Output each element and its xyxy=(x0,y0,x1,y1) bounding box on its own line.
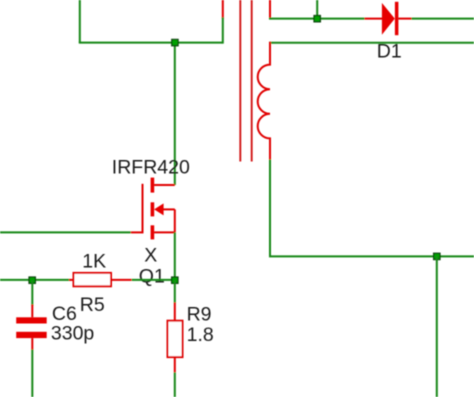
svg-text:1.8: 1.8 xyxy=(187,324,214,346)
resistor R9 top lead xyxy=(174,303,176,321)
wire row C left xyxy=(0,279,70,281)
wire xyxy=(174,372,176,397)
wire xyxy=(222,17,224,43)
wire xyxy=(316,0,318,19)
wire xyxy=(174,43,176,185)
transformer T1 right winding coil xyxy=(258,42,270,160)
capacitor C6 bottom plate xyxy=(16,332,47,338)
diode D1 triangle xyxy=(382,3,395,35)
wire xyxy=(79,42,223,44)
node J2 xyxy=(314,16,320,22)
svg-text:Q1: Q1 xyxy=(139,266,165,288)
transistor Q1 channel bar bottom xyxy=(151,225,155,239)
capacitor C6 top lead xyxy=(31,305,33,318)
diode D1 cathode bar xyxy=(395,2,399,35)
diode D1 cathode lead xyxy=(398,18,411,20)
wire xyxy=(31,350,33,397)
wire row A xyxy=(269,18,365,20)
wire xyxy=(436,256,438,397)
resistor R5 right lead xyxy=(111,279,132,281)
svg-text:R5: R5 xyxy=(80,294,105,316)
wire xyxy=(174,280,176,303)
wire row D xyxy=(269,255,474,257)
wire xyxy=(174,232,176,280)
wire row B right xyxy=(269,42,474,44)
transistor Q1 channel bar top xyxy=(151,178,155,193)
wire row E gate xyxy=(0,231,131,233)
node J5 xyxy=(29,277,35,283)
svg-text:R9: R9 xyxy=(187,303,212,325)
resistor R5 body xyxy=(74,273,112,286)
capacitor C6 bottom lead xyxy=(31,338,33,350)
transistor Q1 source riser xyxy=(174,209,176,232)
svg-text:1K: 1K xyxy=(82,250,106,272)
wire xyxy=(79,0,81,43)
transformer T1 left winding lead xyxy=(222,0,224,18)
transistor Q1 body arrow line xyxy=(163,208,175,210)
wire xyxy=(31,280,33,305)
transistor Q1 body arrow xyxy=(154,203,164,215)
resistor R5 left lead xyxy=(69,279,74,281)
node J3 xyxy=(434,253,440,259)
transformer T1 right winding top lead xyxy=(269,0,271,19)
transformer T1 core line 2 xyxy=(251,0,253,162)
svg-text:330p: 330p xyxy=(51,322,95,344)
svg-text:D1: D1 xyxy=(377,41,402,63)
transistor Q1 source lead xyxy=(154,231,175,233)
wire xyxy=(132,279,175,281)
wire xyxy=(412,18,474,20)
resistor R9 body xyxy=(168,321,183,357)
wire xyxy=(269,160,271,257)
svg-text:IRFR420: IRFR420 xyxy=(112,157,190,179)
resistor R9 bottom lead xyxy=(174,357,176,372)
transformer T1 core line 1 xyxy=(239,0,241,162)
transistor Q1 gate line xyxy=(142,184,144,234)
node J1 xyxy=(172,39,178,45)
diode D1 anode lead xyxy=(365,18,383,20)
capacitor C6 top plate xyxy=(16,317,47,323)
node J4 xyxy=(172,277,178,283)
transistor Q1 gate lead xyxy=(131,231,143,233)
transistor Q1 drain lead xyxy=(154,184,175,186)
transistor Q1 channel bar middle xyxy=(151,202,155,216)
svg-text:X: X xyxy=(144,245,157,267)
